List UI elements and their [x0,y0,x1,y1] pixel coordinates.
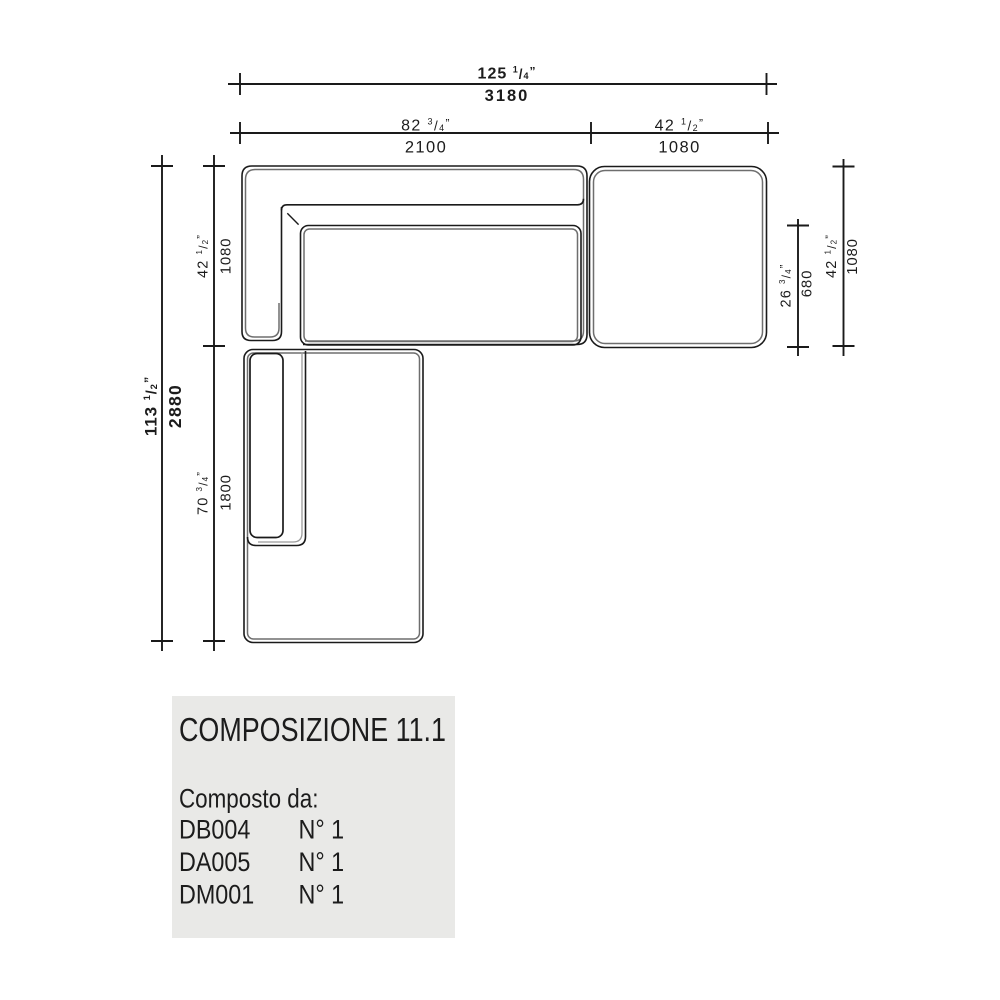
row DA005 [179,847,250,877]
label 125 1/4 inch [478,65,537,83]
chaise DA005 frame inner shade line [248,353,420,639]
svg-text:1800: 1800 [218,474,235,511]
label 26 3/4 inch right [778,264,794,308]
svg-text:COMPOSIZIONE 11.1: COMPOSIZIONE 11.1 [179,712,446,748]
sofa DB004 frame inner shade line [246,170,584,342]
title COMPOSIZIONE 11.1 [179,712,446,748]
dimension line 2100/1080 top [230,122,779,144]
row DB004 [179,815,250,845]
svg-text:N° 1: N° 1 [299,880,345,910]
dimension line 1080 right [833,159,855,356]
label 1080 top [658,139,700,157]
svg-text:2880: 2880 [165,384,185,428]
svg-text:N° 1: N° 1 [299,815,345,845]
dimension line 3180 top [228,73,777,95]
svg-text:Composto da:: Composto da: [179,785,318,814]
label 42 1/2 inch top [655,117,705,135]
label 113 1/2 inch left [142,376,161,436]
label 42 1/2 inch left upper [195,234,211,278]
svg-text:1080: 1080 [658,139,700,157]
label 1800 left lower [218,474,235,511]
dimension line 2880 left [151,155,173,651]
svg-text:N° 1: N° 1 [299,847,345,877]
chaise DA005 back panel boundary [248,351,306,546]
label 42 1/2 inch far right [824,234,840,278]
sofa DB004 corner seam diagonal [287,213,298,224]
dimension line 1080/1800 left [203,155,225,651]
label 3180 [485,87,530,105]
label 1080 left upper [218,238,235,275]
svg-text:DA005: DA005 [179,847,250,877]
chaise DA005 outer frame [244,350,423,643]
label 70 3/4 inch left lower [195,471,211,515]
label 2100 [405,139,447,157]
subtitle Composto da: [179,785,318,814]
sofa DB004 outer frame and arm [242,166,587,345]
svg-text:1080: 1080 [218,238,235,275]
sofa DB004 seat cushion inner shade line [304,229,578,342]
label 82 3/4 inch [401,117,451,135]
svg-text:DB004: DB004 [179,815,250,845]
svg-text:3180: 3180 [485,87,530,105]
sofa DB004 backrest inner line [282,199,584,211]
svg-text:DM001: DM001 [179,880,254,910]
info panel [172,696,455,938]
label 680 right [799,270,816,297]
label 2880 [165,384,185,428]
chaise DA005 back panel inner shade line [258,353,302,543]
pouf DM001 [590,167,767,348]
pouf DM001 inner shade line [594,171,763,344]
svg-text:680: 680 [799,270,816,297]
row DM001 [179,880,254,910]
svg-text:2100: 2100 [405,139,447,157]
svg-text:1080: 1080 [844,238,861,275]
chaise DA005 back cushion [250,354,283,538]
label 1080 far right [844,238,861,275]
sofa DB004 seat cushion [301,226,582,346]
dimension line 680 right [787,219,809,356]
